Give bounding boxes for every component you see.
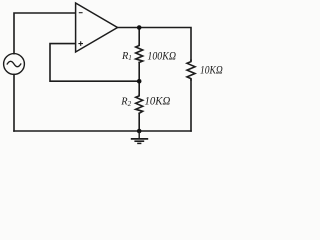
wire: bottom rail — [14, 130, 191, 132]
wire: R2 branch — [138, 81, 140, 95]
node: ground junction — [137, 129, 142, 134]
svg-text:R2: R2 — [120, 97, 131, 108]
node: feedback junction — [137, 79, 142, 84]
op-amp U1 — [76, 3, 118, 52]
svg-text:10KΩ: 10KΩ — [200, 64, 223, 76]
resistor R2 10KΩ — [136, 95, 143, 114]
wire: source bottom down left side — [13, 74, 15, 131]
svg-text:10KΩ: 10KΩ — [145, 95, 171, 107]
wire: R1 branch top — [138, 28, 140, 45]
wire: plus input loop — [50, 44, 139, 82]
wire: minus input to top-left corner — [14, 13, 76, 54]
svg-text:R1: R1 — [121, 51, 132, 62]
resistor R1 100KΩ — [136, 44, 143, 62]
svg-text:100KΩ: 100KΩ — [147, 51, 176, 63]
node: output junction — [137, 25, 142, 30]
wire: R1 to mid node — [138, 62, 140, 81]
AC source VS — [4, 54, 25, 75]
ground — [131, 131, 148, 143]
wire: R2 to ground node — [138, 113, 140, 131]
resistor 10KΩ (right) — [187, 60, 195, 80]
wire: right side top — [118, 28, 192, 61]
wire: right side up — [190, 80, 192, 131]
